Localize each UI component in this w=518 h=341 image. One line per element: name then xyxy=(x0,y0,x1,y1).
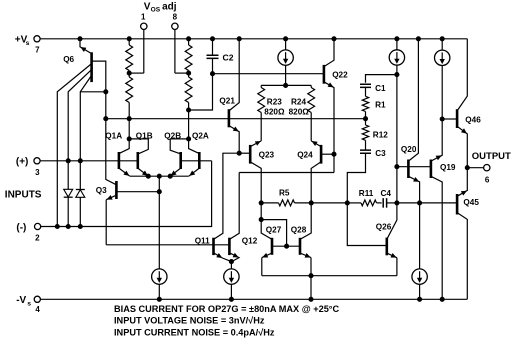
transistor Q23 xyxy=(250,141,274,203)
svg-text:Q45: Q45 xyxy=(463,198,479,207)
svg-text:OS: OS xyxy=(151,7,161,14)
transistor Q11 xyxy=(195,153,240,261)
svg-text:C3: C3 xyxy=(375,149,386,158)
svg-text:820Ω: 820Ω xyxy=(264,107,285,116)
wire left tap to pin1 xyxy=(129,72,144,74)
note text block xyxy=(114,304,339,337)
junction I6 on -Vs rail xyxy=(418,297,422,301)
transistor Q21 xyxy=(219,39,239,153)
junction tail on bus xyxy=(157,174,161,178)
wire x397 vertical I4 to C4 node xyxy=(396,75,398,203)
svg-text:1: 1 xyxy=(141,12,146,21)
transistor Q2B xyxy=(164,132,188,177)
resistor R1 xyxy=(362,87,386,118)
junction R1 R12 long line node xyxy=(363,117,367,121)
wire Q22 base line xyxy=(213,73,324,75)
current source I4 compensation xyxy=(389,39,404,75)
wire Q12 collector to Q22 emitter link xyxy=(239,172,334,174)
wire right tap to pin8 xyxy=(175,72,189,74)
svg-text:INPUT CURRENT NOISE = 0.4pA/√H: INPUT CURRENT NOISE = 0.4pA/√Hz xyxy=(114,327,275,337)
transistor Q26 xyxy=(376,203,397,276)
junction Q22 collector on rail xyxy=(332,37,336,41)
wire output stage emitter bus xyxy=(262,275,397,277)
transistor Q1A xyxy=(105,132,130,177)
junction Q1 collectors node xyxy=(127,137,131,141)
svg-text:R24: R24 xyxy=(291,98,306,107)
+Vs top rail xyxy=(40,38,467,40)
junction long line left end xyxy=(104,117,108,121)
capacitor C2 xyxy=(207,39,234,63)
wire to output terminal xyxy=(467,167,483,169)
junction Q2B emitter on bus xyxy=(168,174,172,178)
wire C2 tap link xyxy=(189,58,213,110)
wire C3 to R11 node xyxy=(347,153,365,203)
junction Q11 Q12 emitters xyxy=(229,260,233,264)
svg-text:Q21: Q21 xyxy=(219,96,235,105)
svg-text:(+): (+) xyxy=(16,157,29,168)
junction base feed tap xyxy=(259,218,263,222)
svg-text:Q6: Q6 xyxy=(63,55,74,64)
resistor R23 820ohm xyxy=(258,85,285,140)
junction emitter bus on rail xyxy=(309,297,313,301)
junction Q27 Q28 base center xyxy=(285,244,289,248)
-Vs bottom rail xyxy=(40,298,467,300)
current source I5 output stage bias xyxy=(435,39,450,119)
wire pin8 to right trim tap xyxy=(174,30,176,74)
svg-text:Q27: Q27 xyxy=(266,225,282,234)
svg-text:2: 2 xyxy=(35,234,40,243)
transistor Q20 xyxy=(401,39,420,203)
svg-text:BIAS CURRENT FOR OP27G = ±80nA: BIAS CURRENT FOR OP27G = ±80nA MAX @ +25… xyxy=(114,304,339,314)
wire second stage output line xyxy=(311,202,348,204)
wire Q23 base link xyxy=(239,152,250,154)
resistor R12 xyxy=(362,119,388,150)
svg-text:Q20: Q20 xyxy=(401,145,417,154)
wire Q3 emitter to Q11 Q12 bases xyxy=(106,244,229,246)
junction left chain on long line xyxy=(127,117,131,121)
svg-text:Q12: Q12 xyxy=(242,237,258,246)
svg-text:8: 8 xyxy=(173,12,178,21)
junction Q6 emitter on +Vs rail xyxy=(78,37,82,41)
svg-text:7: 7 xyxy=(35,46,40,55)
current source I6 sink xyxy=(412,203,427,299)
input terminal (-) pin 2 xyxy=(16,222,40,242)
junction diode D1 on (-) line xyxy=(66,224,70,228)
svg-text:C2: C2 xyxy=(223,52,234,62)
trim terminal pin 1 xyxy=(141,12,147,29)
right trim resistor chain upper xyxy=(185,39,192,73)
svg-text:R5: R5 xyxy=(279,189,290,198)
junction I4 output node xyxy=(395,73,399,77)
svg-text:s: s xyxy=(26,40,30,47)
junction Q21 emitter Q23 base node xyxy=(237,151,241,155)
junction emitter bus drop xyxy=(309,274,313,278)
svg-text:R1: R1 xyxy=(375,101,386,110)
junction C4 right node xyxy=(395,201,399,205)
left trim resistor chain upper xyxy=(126,39,133,73)
svg-text:Q3: Q3 xyxy=(96,186,107,195)
junction Q2 collectors node xyxy=(187,137,191,141)
junction R5 right node xyxy=(309,201,313,205)
junction Q20 emitter on output line xyxy=(418,201,422,205)
junction Q46 base node xyxy=(440,117,444,121)
junction right chain mid tap xyxy=(187,71,191,75)
resistor R5 xyxy=(261,189,311,206)
svg-text:Q28: Q28 xyxy=(291,225,307,234)
left trim resistor chain lower xyxy=(126,73,133,139)
wire pin1 to left trim tap xyxy=(143,30,145,74)
svg-text:(-): (-) xyxy=(16,222,26,233)
junction Q20 collector on rail xyxy=(416,37,420,41)
current source I2 above R23 R24 xyxy=(278,39,293,86)
transistor Q46 xyxy=(442,39,481,168)
svg-text:-V: -V xyxy=(16,295,26,306)
right trim resistor chain lower xyxy=(185,73,192,139)
junction R11 left node xyxy=(345,201,349,205)
junction collector1 on (-) line xyxy=(55,224,59,228)
wire (+) input line xyxy=(40,160,138,162)
transistor Q24 xyxy=(297,141,321,203)
wire Q2B-Q2A base line xyxy=(181,160,212,162)
svg-text:Q23: Q23 xyxy=(259,151,275,160)
svg-text:adj: adj xyxy=(162,1,177,12)
transistor Q19 xyxy=(431,119,456,299)
current source I1 input stage tail xyxy=(152,269,167,299)
transistor Q22 xyxy=(324,39,348,173)
svg-text:C4: C4 xyxy=(381,189,392,198)
junction I2 to R23 R24 xyxy=(284,83,288,87)
protection diode D2 xyxy=(76,161,85,227)
svg-text:3: 3 xyxy=(35,168,40,177)
transistor Q12 xyxy=(229,173,257,262)
svg-text:Q2A: Q2A xyxy=(192,132,209,141)
power terminal -Vs pin 4 xyxy=(16,295,40,314)
capacitor C4 xyxy=(381,189,397,208)
svg-text:Q22: Q22 xyxy=(332,70,348,79)
svg-text:820Ω: 820Ω xyxy=(289,107,310,116)
wire Q19 Q20 base line xyxy=(397,166,431,168)
junction Q6 collector3 on (+) line xyxy=(78,159,82,163)
capacitor C1 xyxy=(360,84,386,93)
svg-text:C1: C1 xyxy=(375,84,386,93)
output terminal pin 6 xyxy=(472,151,511,184)
transistor Q2A xyxy=(189,132,209,177)
junction I3 on -Vs rail xyxy=(229,297,233,301)
wire emitter bus to -Vs rail xyxy=(310,276,312,300)
svg-text:R23: R23 xyxy=(267,98,282,107)
svg-text:OUTPUT: OUTPUT xyxy=(472,151,511,162)
svg-text:Q46: Q46 xyxy=(465,115,481,124)
junction I2 on rail xyxy=(284,37,288,41)
transistor Q6 xyxy=(57,39,106,227)
junction right chain C2 tap xyxy=(187,108,191,112)
svg-text:R12: R12 xyxy=(373,131,388,140)
junction Q19 collector on -Vs rail xyxy=(440,297,444,301)
junction I1 on -Vs rail xyxy=(157,297,161,301)
wire tail to current source xyxy=(158,176,160,269)
resistor R11 xyxy=(347,189,381,206)
junction output node xyxy=(465,166,469,170)
wire output line to Q45 base xyxy=(397,202,457,204)
wire (-) input line with riser to Q2 bases xyxy=(41,161,212,227)
transistor Q3 xyxy=(96,92,160,245)
current source I3 tail of Q11 Q12 xyxy=(224,262,239,300)
junction Q19 Q20 base tap xyxy=(395,165,399,169)
wire R23 R24 top bus xyxy=(261,84,311,86)
capacitor C3 xyxy=(360,149,386,158)
junction Q3 base on tail xyxy=(157,190,161,194)
junction Q21 collector on rail xyxy=(237,37,241,41)
junction Q1B emitter on bus xyxy=(146,174,150,178)
wire input pair emitter bus xyxy=(130,175,189,177)
wire Q24 base link xyxy=(321,153,334,155)
transistor Q45 xyxy=(457,168,479,300)
input terminal (+) pin 3 xyxy=(16,157,40,177)
junction C2 top on rail xyxy=(210,37,214,41)
resistor R24 820ohm xyxy=(289,85,315,140)
junction Q6 base-collector node xyxy=(104,90,108,94)
junction Q22 base tap on C2 lead xyxy=(210,72,214,76)
Vos adj label xyxy=(144,1,177,13)
svg-text:Q24: Q24 xyxy=(297,151,313,160)
svg-text:Q1A: Q1A xyxy=(105,132,122,141)
svg-text:R11: R11 xyxy=(359,189,374,198)
transistor Q27 xyxy=(261,220,282,276)
transistor Q1B xyxy=(129,132,153,177)
junction right chain top on rail xyxy=(187,37,191,41)
junction Q6 collector2 on (+) line xyxy=(66,159,70,163)
wire Q27 Q28 base feed xyxy=(260,203,262,220)
protection diode D1 xyxy=(64,161,73,227)
power terminal +Vs pin 7 xyxy=(15,35,40,55)
long line first stage to compensation node xyxy=(106,118,366,120)
junction left chain mid tap xyxy=(127,71,131,75)
svg-text:INPUT VOLTAGE NOISE = 3nV/√Hz: INPUT VOLTAGE NOISE = 3nV/√Hz xyxy=(114,316,265,326)
trim terminal pin 8 xyxy=(172,12,178,29)
wire I4 to C1 xyxy=(366,75,397,83)
svg-text:4: 4 xyxy=(35,305,40,314)
svg-text:6: 6 xyxy=(485,175,490,184)
junction diode D2 on (-) line xyxy=(78,224,82,228)
junction I5 on rail xyxy=(440,37,444,41)
svg-text:Q11: Q11 xyxy=(195,237,210,246)
junction R5 left node xyxy=(259,201,263,205)
junction Q22 emitter Q24 base node xyxy=(332,152,336,156)
svg-text:INPUTS: INPUTS xyxy=(5,190,42,201)
svg-text:Q26: Q26 xyxy=(376,223,392,232)
junction I4 on rail xyxy=(395,37,399,41)
wire Q27 Q28 base line xyxy=(272,245,300,247)
svg-text:s: s xyxy=(27,301,31,308)
wire Q26 base link xyxy=(347,203,387,246)
junction left chain top on rail xyxy=(127,37,131,41)
transistor Q28 xyxy=(291,203,311,276)
svg-text:Q19: Q19 xyxy=(440,163,456,172)
